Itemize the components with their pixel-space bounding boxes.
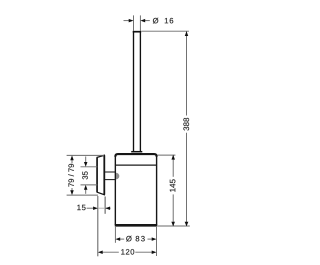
- dim 35: dimension line: [85, 157, 87, 194]
- dim 120: arrowheads: [98, 250, 157, 254]
- dim 79/79: extension lines: [67, 155, 104, 195]
- dim 15: extension line (plate front): [104, 197, 106, 214]
- dim 35: reference lines: [81, 167, 98, 185]
- dim 15: label: [77, 205, 85, 210]
- dim 120: label: [121, 249, 134, 254]
- dim 388: label: [183, 118, 189, 131]
- dim 35: arrowheads: [84, 162, 88, 190]
- dim 15: arrowheads: [93, 206, 110, 210]
- dim Ø83: arrowheads: [115, 237, 156, 241]
- dim Ø83: dimension line: [120, 238, 152, 240]
- dim Ø83: extension lines: [115, 227, 156, 256]
- dim Ø16: label: [153, 18, 158, 24]
- mounting pin / arm: [105, 172, 115, 180]
- dim 35: label: [82, 171, 87, 179]
- dim 145: dimension line: [172, 155, 174, 226]
- cup lid bottom edge: [115, 164, 156, 166]
- dim 79/79: dimension line: [71, 160, 73, 191]
- brush handle: [131, 32, 142, 152]
- dim Ø83: label: [126, 236, 131, 242]
- dim Ø16: extension lines: [134, 15, 141, 31]
- holder cup body: [115, 154, 157, 225]
- dim 120: extension line (wall): [97, 196, 99, 256]
- wall plate (rosette, side view): [97, 155, 104, 194]
- dim 388: extension lines: [142, 31, 190, 226]
- dim 388: arrowheads: [185, 31, 189, 226]
- dim Ø16: arrowheads: [129, 19, 146, 23]
- dim 145: label: [170, 179, 176, 191]
- dim 145: arrowheads: [171, 155, 175, 227]
- dim 388: dimension line: [186, 31, 188, 226]
- dim 79/79: arrowheads: [70, 155, 74, 195]
- dim 79/79: label: [68, 164, 74, 187]
- dim 145: extension line (cup top): [157, 154, 175, 156]
- dim 120: dimension line: [102, 251, 152, 253]
- dim Ø16: dimension line: [124, 20, 150, 22]
- pin boss arc inside cup: [116, 173, 119, 180]
- dim 15: dimension line: [87, 207, 111, 209]
